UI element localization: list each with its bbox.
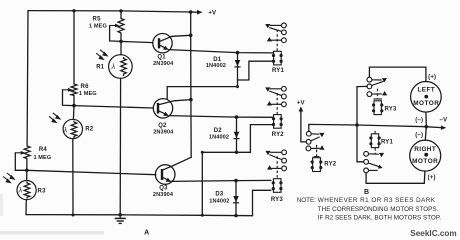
svg-text:SeekIC.com: SeekIC.com	[410, 229, 456, 238]
svg-text:R1: R1	[96, 65, 105, 71]
svg-text:–V: –V	[440, 118, 448, 124]
svg-text:1 MEG: 1 MEG	[89, 23, 107, 29]
svg-text:RY1: RY1	[272, 68, 285, 74]
svg-text:λ: λ	[63, 127, 68, 134]
svg-text:Q2: Q2	[158, 123, 167, 129]
svg-text:R3: R3	[38, 188, 47, 194]
svg-text:λ: λ	[111, 64, 116, 71]
svg-text:WHENEVER R1 OR R3 SEES DARK: WHENEVER R1 OR R3 SEES DARK	[318, 197, 436, 204]
svg-text:R2: R2	[85, 127, 94, 133]
svg-text:1N4002: 1N4002	[209, 199, 229, 205]
svg-text:(–): (–)	[415, 118, 423, 124]
svg-text:MOTOR: MOTOR	[413, 100, 439, 107]
svg-text:+V: +V	[208, 11, 216, 17]
svg-text:B: B	[364, 189, 369, 196]
svg-text:D1: D1	[213, 57, 222, 63]
svg-text:RY3: RY3	[271, 197, 284, 203]
svg-text:R4: R4	[39, 147, 48, 153]
svg-text:1 MEG: 1 MEG	[79, 91, 97, 97]
svg-text:RIGHT: RIGHT	[414, 146, 436, 153]
svg-text:λ: λ	[18, 188, 23, 195]
svg-text:D2: D2	[214, 128, 223, 134]
svg-text:+V: +V	[297, 101, 305, 107]
svg-text:1N4002: 1N4002	[206, 63, 226, 69]
svg-text:NOTE:: NOTE:	[297, 197, 316, 204]
svg-text:(–): (–)	[415, 133, 423, 139]
svg-text:RY2: RY2	[272, 132, 285, 138]
svg-text:2N3904: 2N3904	[153, 192, 174, 198]
svg-text:2N3904: 2N3904	[153, 61, 174, 67]
svg-text:Q1: Q1	[157, 55, 166, 61]
svg-text:A: A	[144, 229, 149, 236]
svg-text:D3: D3	[215, 191, 224, 197]
svg-text:RY1: RY1	[381, 140, 394, 146]
svg-text:THE CORRESPONDING MOTOR STOPS.: THE CORRESPONDING MOTOR STOPS.	[318, 206, 439, 213]
svg-text:(+): (+)	[428, 175, 436, 181]
svg-text:RY3: RY3	[384, 107, 397, 113]
svg-text:R6: R6	[81, 84, 90, 90]
svg-text:1 MEG: 1 MEG	[33, 155, 51, 161]
svg-text:2N3904: 2N3904	[153, 130, 174, 136]
svg-text:Q3: Q3	[159, 185, 168, 191]
svg-text:R5: R5	[93, 16, 102, 22]
svg-text:RY2: RY2	[324, 162, 337, 168]
svg-text:IF R2 SEES DARK, BOTH MOTORS S: IF R2 SEES DARK, BOTH MOTORS STOP.	[318, 214, 441, 221]
svg-text:(+): (+)	[428, 75, 436, 81]
svg-text:LEFT: LEFT	[418, 87, 436, 94]
svg-text:MOTOR: MOTOR	[412, 158, 438, 165]
svg-text:1N4002: 1N4002	[209, 134, 229, 140]
